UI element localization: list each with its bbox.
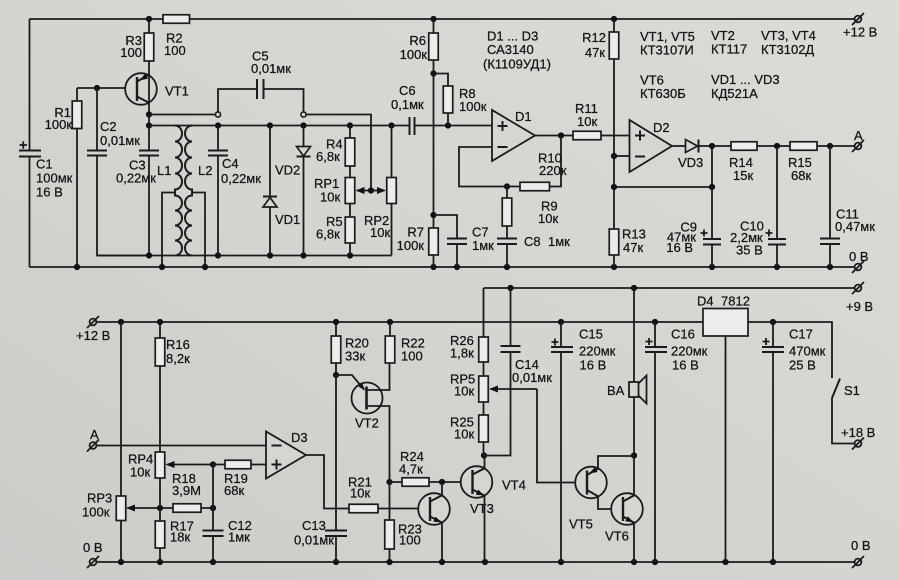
wire: net2 horizontal (osc tank top) [149, 125, 410, 127]
wire: D4 input from S1 [748, 322, 832, 378]
wire: A line to D3 minus [97, 445, 267, 447]
svg-text:6,8к: 6,8к [316, 227, 340, 242]
svg-text:16 В: 16 В [672, 358, 699, 373]
svg-text:VT1: VT1 [165, 84, 189, 99]
wire: D2 minus lead [614, 155, 630, 157]
svg-text:+18 В: +18 В [841, 425, 875, 440]
svg-text:0 В: 0 В [83, 540, 103, 555]
svg-text:220мк: 220мк [579, 344, 616, 359]
svg-text:VT3: VT3 [470, 501, 494, 516]
wire: net2 after C6 to D1 + [415, 125, 493, 127]
capacitor C2 [87, 88, 149, 256]
capacitor C11 [820, 146, 875, 267]
transistor VT1 [125, 73, 189, 105]
junction speaker / VT5e / VT6c [631, 452, 637, 458]
svg-text:8,2к: 8,2к [166, 351, 190, 366]
diode VD1 [263, 126, 300, 256]
resistor R3 [120, 19, 153, 74]
svg-text:C2: C2 [100, 119, 117, 134]
capacitor C7 [434, 215, 495, 267]
svg-text:0,01мк: 0,01мк [294, 533, 334, 548]
resistor R13 [609, 227, 646, 268]
svg-text:68к: 68к [224, 483, 244, 498]
op-amp D3 [266, 430, 308, 479]
resistor R10 [520, 151, 567, 191]
wire: RP4 wiper from R19 node [166, 461, 217, 468]
junction C7 branch [430, 212, 436, 218]
wire: D1 output [535, 135, 573, 137]
transistor VT4 [461, 456, 526, 563]
svg-text:0,01мк: 0,01мк [100, 133, 140, 148]
diode VD2 [297, 126, 311, 256]
svg-text:100: 100 [120, 45, 142, 60]
wire: +9V top wire [484, 287, 855, 289]
svg-text:C16: C16 [671, 327, 695, 342]
svg-text:10к: 10к [577, 114, 597, 129]
junction net2/R4 [347, 122, 353, 128]
terminal 0V lower right [851, 538, 871, 568]
terminal +18V [841, 425, 875, 450]
junction VT4 collector / R25 / C14 [481, 452, 487, 458]
wire: bottom tank wire [98, 255, 392, 257]
svg-text:D2: D2 [653, 120, 670, 135]
wire: C14 bottom link [484, 352, 511, 456]
junction net2/RP2 [388, 122, 394, 128]
terminal A upper [852, 128, 864, 152]
transistor VT5 [569, 456, 634, 532]
resistor R20 [331, 322, 369, 375]
junction C14 top [507, 285, 513, 291]
wire: C5 right to contact 2 [264, 89, 304, 112]
svg-text:4,7к: 4,7к [399, 462, 423, 477]
capacitor C5 [251, 49, 291, 100]
svg-text:100мк: 100мк [36, 171, 73, 186]
capacitor C15 [551, 322, 616, 562]
op-amp D2 [630, 120, 673, 172]
wire: D2 feedback [614, 146, 712, 229]
wire: emitter row to contact [149, 114, 215, 116]
svg-text:D4: D4 [697, 294, 714, 309]
svg-text:0,47мк: 0,47мк [835, 219, 875, 234]
capacitor C8 [497, 234, 570, 267]
svg-text:C8: C8 [524, 234, 541, 249]
svg-text:VD3: VD3 [678, 155, 703, 170]
resistor R15 [788, 142, 855, 183]
svg-text:100: 100 [164, 43, 186, 58]
note: transistor types [640, 28, 816, 101]
svg-text:+12 В: +12 В [76, 328, 110, 343]
wire: contact2 to RP wiper column [306, 115, 371, 191]
terminal +9V [846, 282, 873, 314]
svg-text:10к: 10к [320, 190, 340, 205]
svg-text:L2: L2 [198, 163, 212, 178]
svg-text:СА3140: СА3140 [487, 42, 534, 57]
wire: D1 feedback loop [459, 136, 561, 187]
svg-text:A: A [854, 128, 863, 143]
potentiometer RP5 [450, 372, 488, 416]
capacitor C1 [19, 19, 73, 267]
svg-text:КТ117: КТ117 [711, 42, 747, 57]
svg-text:VT3, VT4: VT3, VT4 [761, 28, 816, 43]
resistor R23 [385, 482, 422, 562]
svg-text:68к: 68к [791, 168, 811, 183]
resistor R22 [385, 322, 425, 364]
svg-text:R16: R16 [166, 337, 190, 352]
svg-text:L1: L1 [157, 163, 171, 178]
junction C11 top [827, 143, 833, 149]
junction feedback at R13 [611, 184, 617, 190]
resistor R9 [502, 187, 558, 239]
svg-text:(К1109УД1): (К1109УД1) [483, 57, 551, 72]
resistor R16 [155, 322, 190, 452]
svg-text:100к: 100к [45, 117, 73, 132]
svg-text:470мк: 470мк [789, 344, 826, 359]
capacitor C16 [645, 322, 708, 562]
wire: C13 column [335, 375, 337, 562]
svg-text:100к: 100к [400, 47, 428, 62]
resistor R11 [573, 101, 630, 140]
transistor VT3 [418, 482, 494, 562]
svg-text:100к: 100к [397, 238, 425, 253]
junction BA top [631, 285, 637, 291]
svg-text:0,22мк: 0,22мк [221, 171, 261, 186]
wire: R18 row with RP3 wiper [126, 505, 216, 512]
wire: D3 output to R21 [306, 455, 349, 509]
resistor R12 [582, 19, 619, 156]
svg-text:3,9М: 3,9М [172, 483, 201, 498]
junction 0V rail dots upper [74, 264, 833, 270]
resistor R7 [397, 225, 439, 268]
svg-text:0 В: 0 В [851, 538, 871, 553]
svg-text:+12 В: +12 В [843, 25, 877, 40]
capacitor C3 [116, 151, 159, 256]
junction R20/VT2 emitter/C13 [333, 372, 339, 378]
svg-text:18к: 18к [170, 530, 190, 545]
junction feedback at C9 [709, 184, 715, 190]
svg-text:0 В: 0 В [849, 249, 869, 264]
svg-text:C13: C13 [302, 518, 326, 533]
svg-text:16 В: 16 В [36, 185, 63, 200]
capacitor C17 [762, 322, 826, 562]
terminal +12V upper right [843, 13, 877, 40]
wire: R6 to R8 jog [434, 74, 449, 87]
junction R6/R7 column [430, 70, 436, 76]
wire: L1 tap [162, 193, 175, 268]
wire: R6-R7 column [433, 74, 435, 229]
junction emitter/wire2 [146, 122, 152, 128]
wire: top +12V rail left part [30, 18, 164, 20]
transistor VT6 [605, 456, 643, 563]
resistor R8 [443, 86, 486, 126]
svg-text:16 В: 16 В [580, 358, 607, 373]
svg-text:100к: 100к [459, 99, 487, 114]
junction R9 top [504, 183, 510, 189]
svg-text:33к: 33к [345, 349, 365, 364]
resistor R2 [163, 15, 190, 24]
svg-text:VD1: VD1 [275, 212, 300, 227]
svg-text:10к: 10к [454, 427, 474, 442]
junction net2/C4 [215, 122, 221, 128]
svg-text:10к: 10к [350, 486, 370, 501]
junction emitter/C5wire [146, 111, 152, 117]
svg-text:1мк: 1мк [228, 530, 250, 545]
wire: upper 0V rail [30, 266, 855, 268]
wire: VT1 emitter column down to C3 [148, 74, 150, 151]
terminal A lower left [87, 427, 99, 452]
svg-text:16 В: 16 В [666, 240, 693, 255]
terminal 0V lower left [83, 540, 103, 568]
svg-text:КТ3107И: КТ3107И [640, 43, 694, 58]
svg-text:0,22мк: 0,22мк [116, 171, 156, 186]
wire: VT1 base wire [77, 87, 137, 89]
resistor R24 [390, 449, 473, 486]
svg-text:100к: 100к [82, 505, 110, 520]
svg-text:VD1 ... VD3: VD1 ... VD3 [711, 72, 780, 87]
capacitor C12 [203, 465, 252, 563]
svg-text:1мк: 1мк [548, 234, 570, 249]
junction VD3 out [709, 143, 715, 149]
inductor L1 [157, 126, 182, 256]
wire: wiper tie RP1-RP2 [356, 187, 387, 194]
svg-text:35 В: 35 В [736, 243, 763, 258]
wire: RP5 wiper to VT5 base [489, 386, 587, 483]
capacitor C4 [208, 126, 261, 256]
svg-text:1мк: 1мк [472, 238, 494, 253]
svg-text:A: A [90, 427, 99, 442]
junction tank wire dots [146, 252, 353, 258]
svg-text:10к: 10к [538, 211, 558, 226]
svg-text:VT2: VT2 [355, 416, 379, 431]
svg-text:0,1мк: 0,1мк [391, 97, 424, 112]
svg-text:100: 100 [399, 533, 421, 548]
junction base/C2 [94, 85, 100, 91]
junction VT2 b1 / R24 / R23 [386, 479, 392, 485]
note: IC types [483, 29, 551, 72]
junction R14/R15 C10 [774, 143, 780, 149]
inductor L2 [185, 126, 212, 256]
terminal 0V upper right [849, 249, 869, 273]
resistor R4 [316, 126, 355, 167]
svg-text:47к: 47к [623, 240, 643, 255]
capacitor C9 [666, 187, 721, 267]
svg-text:+9 В: +9 В [846, 299, 873, 314]
speaker BA [607, 288, 647, 456]
capacitor C14 [501, 288, 553, 385]
wire: top +12V rail right part [190, 18, 855, 20]
capacitor C10 [730, 146, 786, 267]
svg-text:C4: C4 [222, 156, 239, 171]
resistor R21 [348, 475, 430, 513]
junction net2/VD2 [300, 122, 306, 128]
svg-text:VT4: VT4 [502, 478, 526, 493]
svg-text:R12: R12 [582, 30, 606, 45]
resistor R14 [712, 142, 790, 183]
junction top rail at R6 [430, 16, 436, 22]
wire: up to C5 [218, 89, 257, 112]
svg-text:C15: C15 [579, 327, 603, 342]
junction D1 out [558, 132, 564, 138]
contact (open circle) left [215, 112, 220, 117]
svg-text:КТ3102Д: КТ3102Д [761, 42, 814, 57]
svg-text:D1: D1 [515, 109, 532, 124]
junction +12 rail dots [118, 319, 658, 325]
svg-text:10к: 10к [454, 384, 474, 399]
svg-text:R6: R6 [409, 33, 426, 48]
regulator D4 [697, 294, 750, 563]
svg-text:КТ630Б: КТ630Б [640, 86, 686, 101]
svg-text:10к: 10к [370, 225, 390, 240]
potentiometer RP4 [128, 452, 165, 509]
wire: lower +12V rail [97, 321, 704, 323]
svg-text:VD2: VD2 [275, 163, 300, 178]
svg-text:C1: C1 [36, 157, 53, 172]
svg-text:КД521А: КД521А [711, 86, 758, 101]
capacitor C13 [294, 518, 347, 548]
terminal +12V lower left [76, 316, 110, 343]
svg-text:100: 100 [401, 349, 423, 364]
resistor R25 [450, 415, 488, 456]
resistor R19 [213, 460, 266, 498]
svg-text:15к: 15к [733, 168, 753, 183]
potentiometer RP1 [314, 166, 355, 217]
svg-text:0,01мк: 0,01мк [512, 370, 552, 385]
diode VD3 [672, 140, 712, 171]
potentiometer RP3 [82, 322, 126, 562]
svg-text:0,01мк: 0,01мк [251, 61, 291, 76]
resistor R5 [316, 214, 355, 256]
resistor R17 [155, 508, 194, 562]
junction top rail at R12 [611, 16, 617, 22]
svg-text:7812: 7812 [721, 294, 750, 309]
svg-text:RP3: RP3 [87, 491, 112, 506]
contact (open circle) right [301, 112, 306, 117]
svg-text:220к: 220к [539, 163, 567, 178]
junction net2/VD1 [267, 122, 273, 128]
svg-text:D3: D3 [291, 430, 308, 445]
svg-text:1,8к: 1,8к [450, 346, 474, 361]
svg-text:VT6: VT6 [605, 529, 629, 544]
junction D2 minus [611, 153, 617, 159]
junction 0V rail dots lower [118, 559, 776, 565]
switch S1 [832, 379, 860, 444]
junction C17 top [770, 319, 776, 325]
transistor VT2 [336, 363, 390, 482]
wire: lower 0V rail [97, 561, 855, 563]
svg-text:6,8к: 6,8к [316, 149, 340, 164]
svg-text:220мк: 220мк [671, 344, 708, 359]
junction net2/R8 [445, 122, 451, 128]
svg-text:S1: S1 [844, 383, 860, 398]
op-amp D1 [492, 109, 535, 161]
svg-text:C17: C17 [789, 327, 813, 342]
svg-text:BA: BA [607, 383, 625, 398]
svg-text:C6: C6 [399, 83, 416, 98]
resistor R1 [45, 88, 82, 267]
resistor R6 [400, 19, 439, 74]
wire: L2 tap [192, 193, 205, 268]
junction top rail at R3 [146, 16, 152, 22]
resistor R26 [450, 288, 488, 376]
potentiometer RP2 [364, 126, 396, 256]
svg-text:10к: 10к [130, 465, 150, 480]
capacitor C6 [391, 83, 424, 135]
svg-text:25 В: 25 В [789, 358, 816, 373]
svg-text:47к: 47к [585, 45, 605, 60]
junction VT3 collector [439, 479, 445, 485]
resistor R18 [172, 471, 201, 512]
svg-text:VT5: VT5 [569, 517, 593, 532]
